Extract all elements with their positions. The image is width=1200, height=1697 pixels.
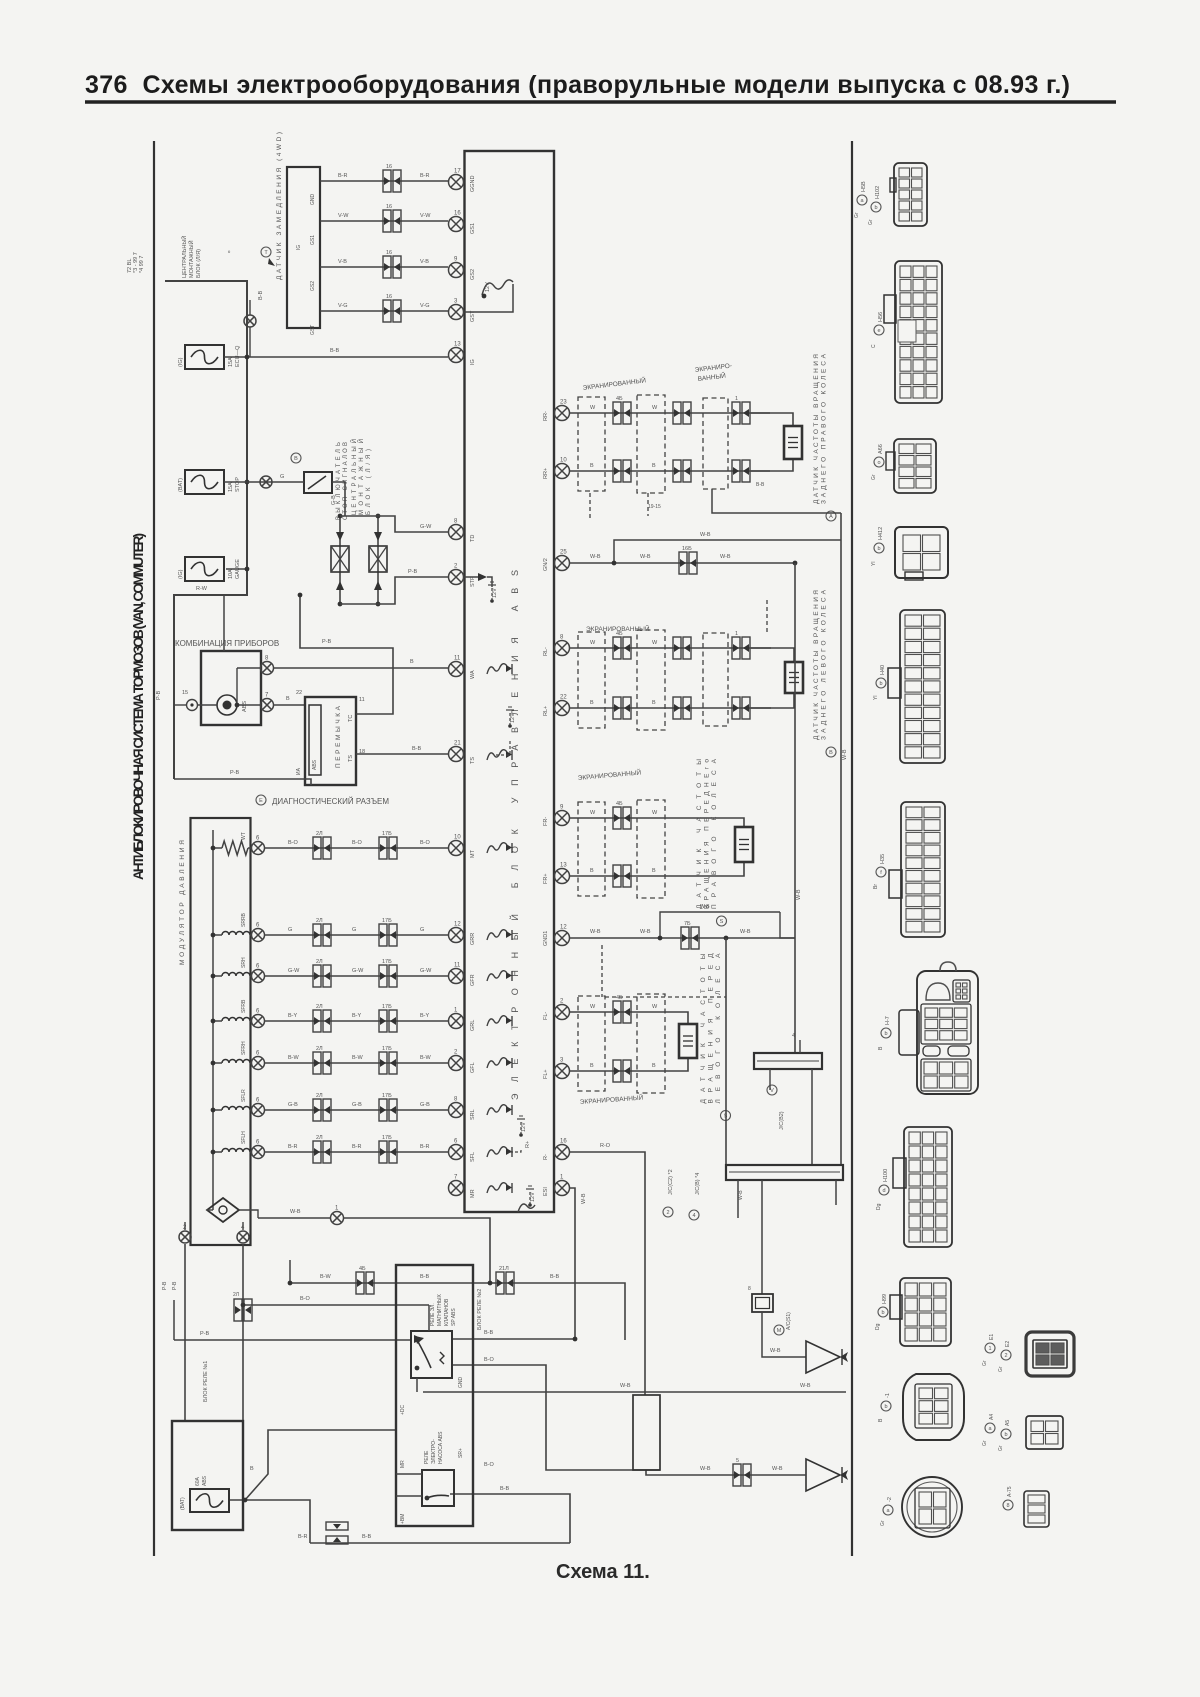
svg-text:W: W [652, 640, 658, 646]
ECU left pin 7 MR [449, 1181, 464, 1196]
svg-text:W-B: W-B [640, 554, 651, 560]
svg-text:1: 1 [988, 1346, 991, 1352]
svg-text:G-B: G-B [288, 1102, 298, 1108]
wire GS sensor row V-G [320, 310, 448, 312]
svg-text:B-Y: B-Y [420, 1013, 430, 1019]
svg-text:12V: 12V [530, 1192, 536, 1202]
svg-text:W-B: W-B [590, 929, 601, 935]
meter right pins [261, 662, 274, 675]
svg-text:S: S [720, 919, 724, 925]
svg-text:b: b [877, 546, 880, 552]
A/C(S1) box [752, 1294, 773, 1312]
svg-text:БЛОК РЕЛЕ №2: БЛОК РЕЛЕ №2 [477, 1289, 483, 1330]
svg-text:SP ABS: SP ABS [451, 1308, 457, 1326]
svg-text:H35: H35 [880, 854, 886, 864]
GND1 drop to bar2 [725, 938, 727, 1165]
svg-text:ЭЛЕКТРО-: ЭЛЕКТРО- [431, 1439, 437, 1464]
sensor wires row A [569, 1012, 688, 1024]
svg-text:16: 16 [386, 164, 392, 170]
svg-text:b: b [884, 1031, 887, 1037]
svg-text:H100: H100 [883, 1169, 889, 1182]
svg-text:P-B: P-B [162, 1281, 168, 1290]
svg-text:21Л: 21Л [499, 1266, 509, 1272]
svg-text:B-Y: B-Y [352, 1013, 362, 1019]
relay block 2 box [396, 1265, 473, 1526]
svg-text:ЗАДНЕГО ПРАВОГО КОЛЕСА: ЗАДНЕГО ПРАВОГО КОЛЕСА [821, 353, 828, 504]
sensor wires row A [569, 818, 744, 827]
RR shield drain wires [589, 493, 591, 520]
shield dashed boxes [578, 996, 605, 1091]
ECU driver symbol y1021 [487, 1016, 507, 1026]
svg-text:RR-: RR- [543, 411, 549, 421]
svg-text:2Л: 2Л [316, 1004, 323, 1010]
svg-text:B: B [286, 696, 290, 702]
bar2 stubs [737, 1180, 739, 1218]
svg-text:V-B: V-B [420, 259, 429, 265]
svg-text:J/C(B) *4: J/C(B) *4 [695, 1173, 701, 1195]
svg-text:W-B: W-B [581, 1193, 587, 1204]
ECU internal 12V refs [482, 280, 513, 295]
svg-text:W: W [590, 810, 596, 816]
svg-text:H412: H412 [878, 527, 884, 540]
ECU right pin 3 FL+ [555, 1064, 570, 1079]
svg-text:b: b [884, 1404, 887, 1410]
ECU left pin 3 GST [449, 305, 464, 320]
wire fuse2 to stop switch [224, 481, 304, 483]
svg-text:FR-: FR- [543, 817, 549, 826]
svg-text:Dg: Dg [875, 1323, 881, 1330]
relay1 wires inside [428, 1305, 430, 1331]
svg-text:17Б: 17Б [382, 1046, 392, 1052]
svg-text:ECU—Q: ECU—Q [235, 345, 241, 367]
svg-text:АНТИБЛОКИРОВОЧНАЯ СИСТЕМА ТОРМ: АНТИБЛОКИРОВОЧНАЯ СИСТЕМА ТОРМОЗОВ (VAN,… [131, 533, 146, 880]
svg-text:GND: GND [310, 194, 316, 206]
svg-text:H40: H40 [880, 665, 886, 675]
web row y1305 [243, 1304, 429, 1306]
connector A66 [894, 439, 936, 493]
connector H40 [900, 610, 945, 763]
svg-text:17Б: 17Б [382, 918, 392, 924]
connector H56 [895, 261, 942, 403]
svg-text:G-B: G-B [331, 495, 337, 505]
svg-text:НАСОСА ABS: НАСОСА ABS [438, 1431, 444, 1464]
ECU driver symbol y669 [487, 664, 507, 674]
svg-text:Gr: Gr [982, 1440, 988, 1446]
svg-text:A/C(S1): A/C(S1) [786, 1312, 792, 1330]
web row B-W with connectors [290, 1283, 625, 1340]
W-B row to triangle2 [646, 1470, 806, 1475]
ECU driver symbol y1152 [487, 1147, 507, 1157]
svg-text:W-B: W-B [620, 1383, 631, 1389]
wire meter to jumper [274, 704, 305, 706]
svg-text:W-B: W-B [720, 554, 731, 560]
central junction block corner wire [165, 281, 247, 779]
modulator row SRH wire [222, 973, 250, 977]
ECU right pin 8 RL- [555, 641, 570, 656]
svg-text:W: W [590, 1004, 596, 1010]
svg-text:M: M [777, 1328, 782, 1334]
svg-text:G-W: G-W [288, 968, 300, 974]
ECU right pin 13 FR+ [555, 869, 570, 884]
svg-text:22: 22 [560, 695, 567, 701]
svg-text:B-W: B-W [320, 1274, 332, 1280]
web bottom row [229, 1430, 396, 1500]
svg-text:SRRB: SRRB [241, 912, 247, 927]
svg-text:E: E [259, 798, 263, 804]
svg-text:G-W: G-W [420, 968, 432, 974]
svg-text:12V: 12V [492, 588, 498, 598]
ECU left pin 16 GS1 [449, 217, 464, 232]
svg-text:R-O: R-O [600, 1143, 611, 1149]
meter top feed [223, 595, 225, 651]
svg-text:4Б: 4Б [616, 995, 623, 1001]
svg-text:B-O: B-O [352, 840, 363, 846]
svg-text:W-B: W-B [290, 1209, 301, 1215]
wheel speed sensor box [679, 1024, 697, 1058]
svg-text:GS2: GS2 [310, 281, 316, 291]
ECU left pin 11 GFR [449, 969, 464, 984]
svg-text:MT: MT [470, 849, 476, 858]
modulator row SFLH wire [222, 1149, 250, 1152]
svg-text:Gr: Gr [871, 474, 877, 480]
svg-text:ABS: ABS [202, 1475, 208, 1486]
svg-text:GND1: GND1 [543, 931, 549, 946]
svg-text:B: B [590, 1063, 594, 1069]
svg-text:P-B: P-B [230, 770, 240, 776]
wheel speed sensor box [785, 662, 803, 693]
wire bottom to jumper [174, 779, 311, 785]
svg-text:12V: 12V [485, 282, 491, 292]
svg-text:B: B [590, 463, 594, 469]
svg-text:GST: GST [310, 325, 316, 335]
solenoid relay [411, 1331, 452, 1378]
svg-text:B-B: B-B [258, 291, 264, 301]
svg-text:2Л: 2Л [316, 1093, 323, 1099]
svg-text:Gr: Gr [982, 1360, 988, 1366]
svg-text:V-G: V-G [420, 303, 429, 309]
ECU U1: electronic ABS control unit box [465, 151, 555, 1212]
svg-text:G: G [288, 927, 292, 933]
svg-text:ЭКРАНИРОВАННЫЙ: ЭКРАНИРОВАННЫЙ [586, 624, 650, 633]
svg-text:R+: R+ [525, 1141, 531, 1148]
svg-text:4: 4 [692, 1213, 695, 1219]
wire fuse3 down [226, 568, 247, 570]
svg-text:МАГНИТНЫХ: МАГНИТНЫХ [437, 1293, 443, 1326]
svg-text:B: B [590, 700, 594, 706]
modulator inner bus [212, 830, 214, 1210]
svg-text:5: 5 [736, 1458, 739, 1464]
svg-text:V-W: V-W [420, 213, 431, 219]
svg-text:ЦЕНТРАЛЬНЫЙ: ЦЕНТРАЛЬНЫЙ [180, 236, 188, 278]
svg-text:РЕЛЕ: РЕЛЕ [424, 1450, 430, 1464]
svg-text:10: 10 [560, 458, 567, 464]
svg-text:B-O: B-O [484, 1357, 495, 1363]
svg-text:B-R: B-R [420, 173, 430, 179]
svg-text:B: B [294, 456, 298, 462]
svg-text:B-O: B-O [420, 840, 431, 846]
branch up from GN/2 [614, 540, 841, 563]
connector H100 [904, 1127, 952, 1247]
svg-text:(BAT): (BAT) [178, 478, 184, 492]
svg-text:W: W [652, 810, 658, 816]
svg-text:ПЕРЕМЫЧКА: ПЕРЕМЫЧКА [335, 705, 342, 768]
svg-text:2Л: 2Л [233, 1292, 239, 1298]
svg-text:P-B: P-B [172, 1281, 178, 1290]
ESI wire from ECU [569, 1188, 575, 1339]
svg-text:SR+: SR+ [458, 1448, 464, 1458]
svg-text:МОДУЛЯТОР ДАВЛЕНИЯ: МОДУЛЯТОР ДАВЛЕНИЯ [179, 840, 186, 965]
svg-text:WT: WT [241, 832, 247, 840]
web relay outputs right [451, 1338, 575, 1340]
svg-text:GFL: GFL [470, 1062, 476, 1073]
svg-text:B-W: B-W [288, 1055, 300, 1061]
ECU left pin 8 SRL [449, 1103, 464, 1118]
svg-text:376 Схемы электрооборудования: 376 Схемы электрооборудования (праворуль… [85, 71, 1070, 99]
jumper block (peremychka) [305, 697, 356, 785]
relay block 1 box [172, 1421, 243, 1530]
svg-text:12V: 12V [510, 713, 516, 723]
svg-text:GGND: GGND [470, 175, 476, 192]
svg-text:19-15: 19-15 [648, 504, 661, 510]
fuse F1 15A ECU-Q [185, 345, 224, 369]
svg-text:B: B [652, 463, 656, 469]
svg-text:15: 15 [182, 690, 188, 696]
svg-text:SFRH: SFRH [241, 1041, 247, 1055]
svg-text:R-W: R-W [196, 586, 208, 592]
svg-text:РЕЛЕ ЭЛ.: РЕЛЕ ЭЛ. [430, 1303, 436, 1326]
svg-text:11: 11 [359, 697, 365, 703]
svg-text:*4 99 7: *4 99 7 [139, 256, 145, 273]
svg-text:7Б: 7Б [684, 921, 691, 927]
svg-text:W-B: W-B [842, 749, 848, 760]
ground bar J/C(B2) [754, 1053, 822, 1069]
svg-text:16: 16 [386, 204, 392, 210]
svg-text:E2: E2 [1005, 1341, 1011, 1347]
svg-text:W: W [652, 405, 658, 411]
svg-text:FR+: FR+ [543, 873, 549, 884]
right divider wire [851, 141, 853, 1556]
sensor wires row B [569, 1058, 688, 1071]
svg-text:+BM: +BM [400, 1514, 406, 1524]
svg-text:RL-: RL- [543, 647, 549, 656]
svg-text:C: C [871, 344, 877, 348]
svg-text:16Б: 16Б [682, 546, 692, 552]
svg-text:B-B: B-B [420, 1274, 430, 1280]
ECU left pin 6 SFL [449, 1145, 464, 1160]
svg-text:2Л: 2Л [316, 1135, 323, 1141]
svg-text:MR: MR [400, 1460, 406, 1468]
svg-text:b: b [881, 1310, 884, 1316]
meter left pin [187, 700, 198, 711]
svg-text:11: 11 [454, 963, 461, 969]
svg-text:SFLH: SFLH [241, 1131, 247, 1144]
inline connector pairs [613, 637, 631, 659]
svg-text:КЛАПАНОВ: КЛАПАНОВ [444, 1298, 450, 1326]
svg-text:4: 4 [792, 1033, 795, 1039]
svg-text:Gr: Gr [854, 212, 860, 218]
svg-text:SRH: SRH [241, 957, 247, 968]
svg-text:W-B: W-B [800, 1383, 811, 1389]
svg-text:2: 2 [666, 1210, 669, 1216]
modulator row SRRB wire [222, 932, 250, 935]
svg-text:GS2: GS2 [470, 269, 476, 280]
svg-text:B-B: B-B [756, 482, 765, 488]
svg-text:КОМБИНАЦИЯ ПРИБОРОВ: КОМБИНАЦИЯ ПРИБОРОВ [175, 639, 279, 648]
svg-text:TS: TS [348, 755, 354, 762]
svg-text:B-R: B-R [338, 173, 348, 179]
diagnostic connector label [256, 795, 266, 805]
svg-text:16: 16 [454, 211, 461, 217]
sensor wires row A [569, 412, 770, 414]
svg-text:4Б: 4Б [616, 396, 623, 402]
connector B-1 octagon [903, 1374, 964, 1440]
svg-text:СТОП-СИГНАЛОВ: СТОП-СИГНАЛОВ [343, 442, 349, 520]
svg-text:d: d [882, 1188, 885, 1194]
pump relay [422, 1470, 454, 1506]
modulator row SFRB wire [222, 1018, 250, 1022]
svg-text:W-B: W-B [796, 889, 802, 900]
RL drain [766, 600, 768, 635]
GN/2 row wire [569, 562, 795, 564]
shield dash GND1 to FL [601, 945, 603, 997]
svg-text:2Л: 2Л [316, 1046, 323, 1052]
svg-text:8: 8 [1006, 1503, 1009, 1509]
svg-text:2Л: 2Л [316, 918, 323, 924]
svg-text:W-B: W-B [740, 929, 751, 935]
svg-text:GS1: GS1 [470, 223, 476, 234]
svg-text:H56: H56 [878, 312, 884, 322]
svg-text:W: W [590, 640, 596, 646]
svg-text:ВЫКЛЮЧАТЕЛЬ: ВЫКЛЮЧАТЕЛЬ [336, 442, 342, 520]
fuse F3 10A GAUGE [185, 557, 224, 581]
wire stop switch to diode block [332, 482, 345, 516]
svg-text:B-R: B-R [420, 1144, 430, 1150]
svg-text:RR+: RR+ [543, 468, 549, 479]
svg-text:SFL: SFL [470, 1152, 476, 1162]
svg-text:W-B: W-B [770, 1348, 781, 1354]
GND1 row wire [569, 937, 795, 939]
svg-text:SRL: SRL [470, 1109, 476, 1120]
sensor wires row B [569, 862, 744, 876]
diode D at x378 [377, 516, 379, 604]
connector H5B/H102 [894, 163, 927, 226]
wire GS sensor row V-B [320, 266, 448, 268]
modulator row SFRH wire [222, 1060, 250, 1064]
svg-text:БЛОК РЕЛЕ №1: БЛОК РЕЛЕ №1 [203, 1361, 209, 1402]
svg-text:B: B [652, 868, 656, 874]
ECU right pin 22 RL+ [555, 701, 570, 716]
svg-text:МОНТАЖНЫЙ: МОНТАЖНЫЙ [187, 240, 195, 278]
svg-text:G-B: G-B [352, 1102, 362, 1108]
svg-text:G: G [352, 927, 356, 933]
wheel speed sensor box [784, 426, 802, 459]
svg-text:RL+: RL+ [543, 706, 549, 716]
svg-text:-1: -1 [885, 1393, 891, 1398]
svg-text:(IG): (IG) [178, 569, 184, 579]
connector H412 [895, 527, 948, 578]
connector A75 [1024, 1491, 1049, 1527]
connector H7 complex [917, 971, 978, 1094]
svg-text:23: 23 [560, 400, 567, 406]
svg-text:GND: GND [458, 1377, 464, 1389]
ECU left pin 10 MT [449, 841, 464, 856]
svg-text:B-O: B-O [288, 840, 299, 846]
svg-text:B: B [652, 1063, 656, 1069]
svg-text:B: B [652, 700, 656, 706]
svg-text:13: 13 [454, 342, 461, 348]
svg-text:ABS: ABS [242, 701, 248, 712]
modulator bottom pins [179, 1231, 191, 1243]
J/C circles labels [663, 1207, 673, 1217]
wire GS sensor row B-R [320, 180, 448, 182]
svg-text:ЦЕНТРАЛЬНЫЙ: ЦЕНТРАЛЬНЫЙ [350, 439, 358, 515]
inline connector pairs [613, 1001, 631, 1023]
svg-text:МОНТАЖНЫЙ: МОНТАЖНЫЙ [357, 439, 365, 515]
ground triangle 1 [806, 1341, 840, 1373]
ECU right pin 12 GND1 [555, 931, 570, 946]
svg-text:10: 10 [454, 835, 461, 841]
vertical drop x=795 [794, 563, 796, 1053]
svg-text:G: G [420, 927, 424, 933]
svg-text:W-B: W-B [700, 904, 710, 910]
svg-text:J/C(C2) *2: J/C(C2) *2 [668, 1169, 674, 1195]
ECU driver symbol y1063 [487, 1058, 507, 1068]
svg-text:P-B: P-B [156, 691, 162, 701]
ECU left pin 11 WA [449, 662, 464, 677]
svg-text:1: 1 [735, 631, 738, 637]
svg-text:FL-: FL- [543, 1012, 549, 1020]
svg-text:G-W: G-W [420, 524, 432, 530]
svg-text:A: A [829, 514, 833, 520]
svg-text:B: B [829, 750, 833, 756]
wheel speed sensor box [735, 827, 753, 862]
svg-text:WA: WA [470, 670, 476, 679]
fuse 60A ABS [190, 1489, 229, 1512]
svg-text:13: 13 [560, 863, 567, 869]
svg-text:P-B: P-B [322, 639, 332, 645]
svg-text:4Б: 4Б [359, 1266, 366, 1272]
svg-text:ABS: ABS [312, 759, 318, 770]
ABS warning lamp L1 [217, 695, 237, 715]
svg-text:P-B: P-B [408, 569, 418, 575]
svg-text:21: 21 [454, 741, 461, 747]
svg-text:W-B: W-B [640, 929, 651, 935]
connector E1/E2 small dark [1026, 1332, 1074, 1376]
svg-text:БЛОК (Л/Я): БЛОК (Л/Я) [196, 249, 202, 278]
shield dashed boxes [578, 802, 605, 896]
svg-text:IG: IG [470, 359, 476, 365]
svg-text:Yl: Yl [873, 696, 879, 700]
svg-text:B-R: B-R [288, 1144, 298, 1150]
wire TS to ECU [356, 753, 448, 755]
ECU right pin 1 ESI [555, 1181, 570, 1196]
ECU driver symbol y976 [487, 971, 507, 981]
long web wire C [184, 1244, 186, 1421]
svg-text:Gr: Gr [998, 1445, 1004, 1451]
svg-text:8: 8 [748, 1286, 751, 1292]
inline connector pairs [613, 402, 631, 424]
svg-text:W-B: W-B [590, 554, 601, 560]
svg-text:H5B: H5B [861, 181, 867, 192]
svg-text:(BAT): (BAT) [180, 1497, 186, 1510]
svg-text:B-R: B-R [298, 1534, 308, 1540]
svg-text:B-B: B-B [484, 1330, 494, 1336]
svg-text:A4: A4 [989, 1414, 995, 1420]
svg-text:A-75: A-75 [1007, 1486, 1013, 1497]
R-O wire from ECU [569, 1152, 645, 1395]
svg-text:10A: 10A [228, 569, 234, 579]
svg-text:ДИАГНОСТИЧЕСКИЙ РАЗЪЕМ: ДИАГНОСТИЧЕСКИЙ РАЗЪЕМ [272, 797, 389, 806]
